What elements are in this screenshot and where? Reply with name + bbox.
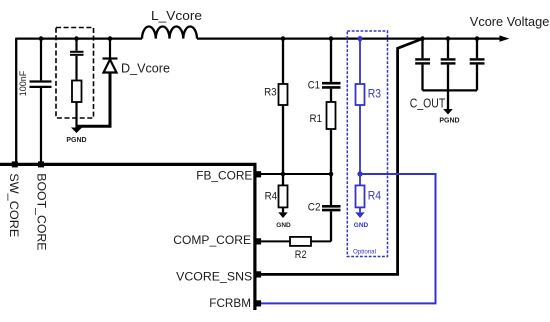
svg-text:COMP_CORE: COMP_CORE xyxy=(173,233,251,247)
svg-text:Vcore Voltage: Vcore Voltage xyxy=(470,14,550,29)
ground GND blue xyxy=(355,212,364,218)
svg-text:Optional: Optional xyxy=(353,248,376,255)
wire VCORE_SNS sense trace (thick) xyxy=(260,39,422,274)
wire FCRBM blue trace xyxy=(260,174,436,303)
wire R1 to FB node xyxy=(330,129,332,174)
resistor R3 (blue optional) xyxy=(356,39,365,174)
blue dashed box Optional xyxy=(347,31,387,257)
svg-text:R1: R1 xyxy=(310,113,323,125)
svg-text:GND: GND xyxy=(276,222,291,229)
wire: main top rail right segment xyxy=(197,37,500,39)
svg-text:GND: GND xyxy=(354,222,369,229)
ground PGND snubber xyxy=(71,128,82,134)
svg-text:FCRBM: FCRBM xyxy=(209,296,251,310)
wire SW bus (thick) xyxy=(0,164,255,310)
wire FB node horizontal xyxy=(260,173,331,175)
wire R2 to C2 xyxy=(311,240,331,242)
arrowhead Vcore Voltage output xyxy=(500,35,510,41)
junction SW_CORE on bus xyxy=(12,161,18,167)
svg-text:L_Vcore: L_Vcore xyxy=(151,9,202,23)
ground GND under R4 black xyxy=(278,212,287,218)
svg-text:D_Vcore: D_Vcore xyxy=(121,62,170,76)
svg-text:R3: R3 xyxy=(368,88,381,100)
wire: left vertical drop to SW bus xyxy=(15,39,17,163)
resistor snubber xyxy=(72,81,82,103)
node dots on top rail xyxy=(39,36,480,41)
resistor R4 (blue optional) xyxy=(356,174,365,212)
node dots on FB line xyxy=(281,172,334,177)
svg-text:C1: C1 xyxy=(308,79,320,91)
svg-text:FB_CORE: FB_CORE xyxy=(196,169,252,183)
junction BOOT_CORE on bus xyxy=(38,161,44,167)
svg-text:C_OUT: C_OUT xyxy=(410,97,446,111)
resistor R2 xyxy=(290,237,311,246)
wire snubber to ground xyxy=(75,102,77,128)
svg-text:VCORE_SNS: VCORE_SNS xyxy=(176,270,252,284)
dashed box snubber xyxy=(56,28,94,119)
pin VCORE_SNS xyxy=(255,271,261,277)
svg-text:SW_CORE: SW_CORE xyxy=(7,173,21,237)
pin COMP_CORE xyxy=(255,238,261,244)
resistor R4 (black) xyxy=(279,174,288,212)
svg-text:C2: C2 xyxy=(308,202,321,214)
svg-text:100nF: 100nF xyxy=(18,70,28,96)
pin FCRBM xyxy=(255,300,261,306)
svg-text:PGND: PGND xyxy=(439,117,459,124)
wire: main top rail left segment xyxy=(15,37,142,39)
svg-text:R4: R4 xyxy=(368,191,382,203)
capacitor C2 xyxy=(322,174,341,241)
svg-text:R3: R3 xyxy=(264,86,277,98)
resistor R1 xyxy=(327,102,336,129)
node dots blue xyxy=(357,36,362,177)
svg-text:R4: R4 xyxy=(265,191,278,203)
svg-text:PGND: PGND xyxy=(66,137,86,144)
svg-text:BOOT_CORE: BOOT_CORE xyxy=(34,173,48,250)
diode D_Vcore xyxy=(103,39,118,73)
pin FB_CORE xyxy=(255,171,261,177)
resistor R3 (black) xyxy=(279,39,288,174)
ground PGND C_OUT xyxy=(443,109,453,115)
wire diode to ground (thick) xyxy=(77,73,111,127)
capacitor 100nF xyxy=(30,39,52,163)
capacitor C_OUT bank xyxy=(415,39,484,109)
inductor L_Vcore xyxy=(142,26,197,38)
svg-text:R2: R2 xyxy=(295,249,307,261)
capacitor C1 xyxy=(322,39,341,102)
capacitor snubber xyxy=(70,39,84,81)
wire COMP to R2 xyxy=(260,240,290,242)
